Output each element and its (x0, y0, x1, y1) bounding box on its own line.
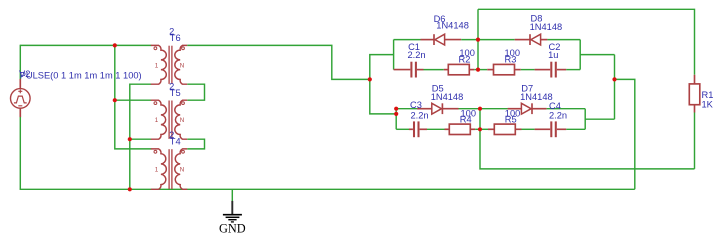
svg-text:2.2n: 2.2n (411, 111, 429, 121)
capacitor C2 1u (535, 62, 567, 78)
diode D5 1N4148 (417, 103, 458, 114)
wire top rail to R1 (478, 9, 695, 75)
svg-text:1N4148: 1N4148 (436, 21, 469, 31)
wire top block right tap to output node (580, 54, 614, 56)
svg-text:N: N (180, 117, 184, 124)
wire output node to ground drop (615, 79, 635, 189)
svg-text:R1: R1 (702, 90, 714, 100)
wire D6 anode feed (394, 39, 421, 41)
wire D6 cathode to center node (461, 39, 478, 41)
wire source vertical upper (19, 45, 21, 79)
svg-text:1: 1 (155, 117, 159, 124)
wire main vertical to primaries (115, 45, 152, 148)
wire bottom block left vertical (395, 109, 397, 130)
svg-text:V2: V2 (19, 69, 30, 79)
wire bottom right tap to output vertical (585, 118, 614, 120)
node dot R2-R3 junction (476, 68, 480, 72)
wire R4 to center (475, 128, 480, 130)
svg-text:R2: R2 (459, 54, 471, 64)
wire top rail from source to T6 primary top (20, 44, 151, 46)
wire R3 to C2 (521, 69, 535, 71)
transformer T6 (151, 27, 188, 84)
wire T5 primary top feed (115, 99, 152, 101)
wire source vertical lower (19, 117, 21, 189)
wire T5 secondary bottom to T4 secondary top (187, 139, 204, 149)
wire secondary output to blocks (187, 45, 369, 79)
wire top block right vertical (579, 40, 581, 70)
wire R1 bottom to link row (694, 113, 696, 169)
wire bottom rail (20, 188, 635, 190)
capacitor C4 2.2n (535, 121, 567, 137)
resistor R5 100 (488, 124, 522, 134)
transformer T5 (151, 82, 188, 140)
svg-text:2.2n: 2.2n (549, 110, 567, 120)
wire R2 to center node (474, 69, 478, 71)
wire top block left vertical (393, 40, 395, 70)
wire C3 to R4 (427, 128, 445, 130)
ground symbol (223, 189, 242, 222)
svg-text:PULSE(0 1 1m 1m 1m 1 100): PULSE(0 1 1m 1m 1m 1 100) (20, 71, 142, 81)
node dot D5 feed (394, 107, 398, 111)
wire T6 secondary bottom to T5 secondary top (187, 84, 204, 100)
wire D8 cathode to right vertical (547, 39, 580, 41)
wire center to R3 (478, 69, 487, 71)
node dot secondary output (368, 77, 372, 81)
node dot T5 primary return (128, 137, 132, 141)
svg-text:GND: GND (219, 221, 246, 235)
wire D7 feed (480, 108, 508, 110)
svg-text:1N4148: 1N4148 (520, 92, 553, 102)
node dot R4-R5 junction (478, 127, 482, 131)
voltage source V2 pulse (10, 79, 30, 117)
wire C1 to R2 (424, 69, 444, 71)
node dot D6-D8 junction (476, 38, 480, 42)
node dot bottom block feed (394, 112, 398, 116)
svg-text:C3: C3 (410, 100, 422, 110)
svg-text:R3: R3 (505, 54, 517, 64)
wire D5 cathode to center (459, 108, 481, 110)
resistor R4 100 (445, 124, 476, 134)
node dot return to bottom rail (128, 187, 132, 191)
capacitor C1 2.2n (410, 62, 423, 78)
svg-text:1: 1 (155, 167, 159, 174)
node dot source-T6 junction (113, 43, 117, 47)
wire C4 to right vertical (566, 128, 585, 130)
svg-text:T5: T5 (170, 88, 181, 98)
wire bottom center vertical (480, 109, 695, 169)
wire top rail drop to D6-D8 node (477, 9, 479, 39)
svg-text:T6: T6 (170, 33, 181, 43)
wire output node vertical (614, 55, 616, 120)
svg-text:1: 1 (155, 62, 159, 69)
resistor R3 100 (487, 64, 521, 74)
wire D8 feed (478, 39, 515, 41)
svg-text:N: N (180, 167, 184, 174)
svg-text:T4: T4 (170, 137, 181, 147)
node dot output node (612, 77, 616, 81)
wire D7 cathode to right vertical (547, 108, 586, 110)
node dot D5-D7 junction (478, 107, 482, 111)
wire C1 left lead from corner (394, 69, 411, 71)
diode D8 1N4148 (515, 34, 548, 45)
svg-text:1K: 1K (702, 100, 714, 110)
wire R5 to C4 (522, 128, 535, 130)
wire C2 to right vertical (566, 69, 580, 71)
wire feed to top block tap (370, 55, 394, 80)
capacitor C3 2.2n (409, 121, 427, 137)
wire center vertical D row to R row (477, 40, 479, 70)
label V2 and PULSE parameters (19, 69, 142, 81)
node dot T5 primary feed (113, 98, 117, 102)
svg-text:R5: R5 (505, 114, 517, 124)
svg-text:N: N (180, 62, 184, 69)
svg-text:2.2n: 2.2n (408, 50, 426, 60)
svg-text:1N4148: 1N4148 (431, 92, 464, 102)
wire center to R5 (480, 128, 488, 130)
svg-text:1N4148: 1N4148 (530, 22, 563, 32)
svg-text:R4: R4 (460, 114, 472, 124)
wire T6 primary bottom return jog (130, 84, 152, 189)
wire D5 anode feed (396, 108, 417, 110)
transformer T4 (151, 130, 188, 189)
wire bottom block right vertical (584, 109, 586, 130)
diode D6 1N4148 (421, 34, 462, 45)
diode D7 1N4148 (508, 103, 547, 114)
resistor R2 100 (444, 64, 475, 74)
wire C3 left lead from corner (396, 128, 409, 130)
resistor R1 1K vertical (689, 75, 700, 113)
wire feed to bottom block tap (370, 79, 396, 114)
svg-text:1u: 1u (548, 50, 558, 60)
wire T5 primary bottom return (130, 138, 152, 140)
